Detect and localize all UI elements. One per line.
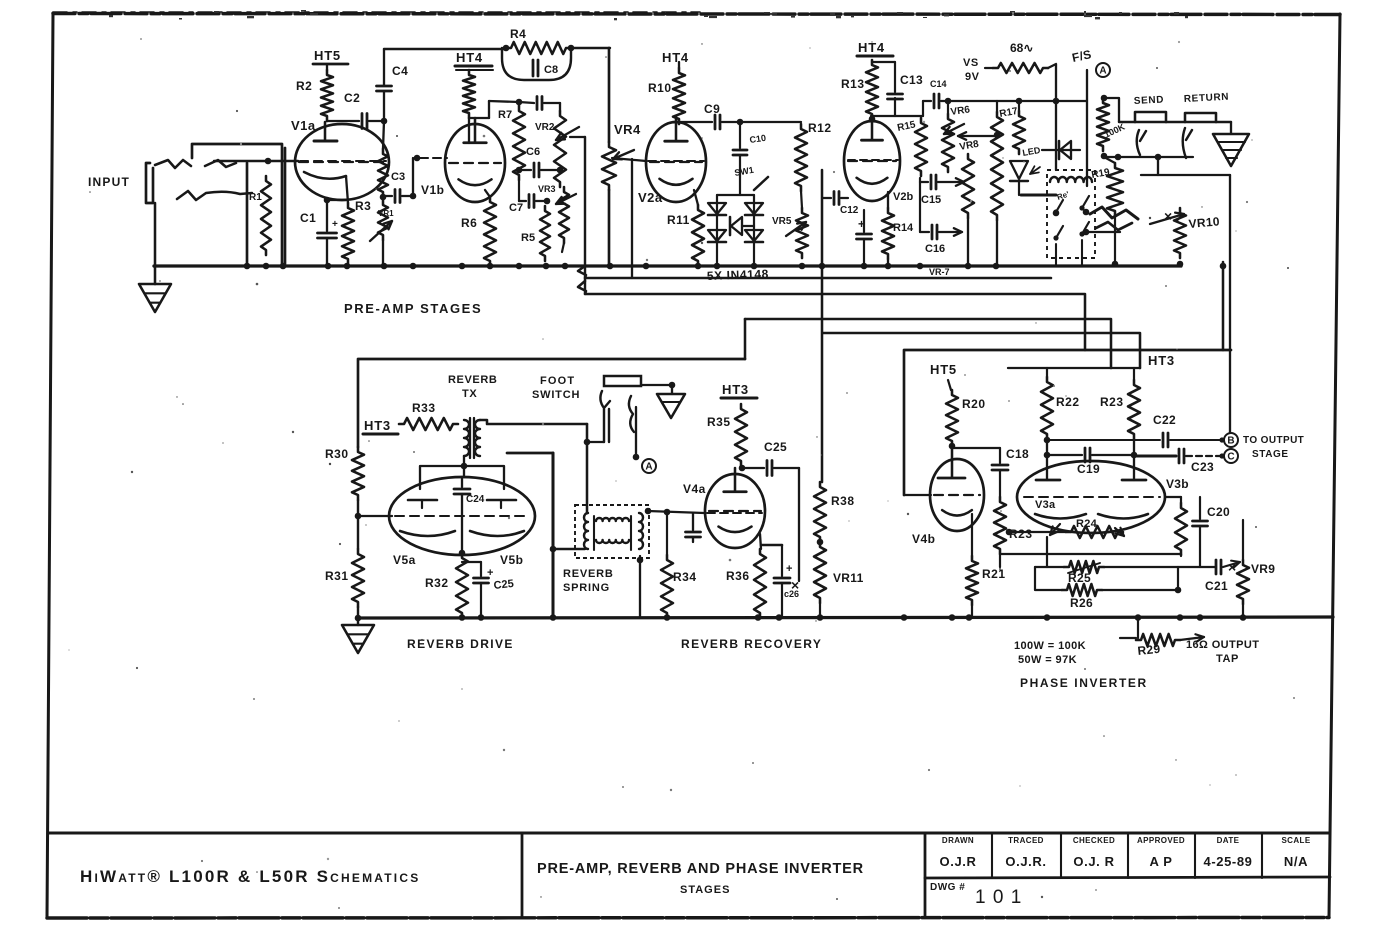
capacitor C16 [919, 182, 921, 232]
capacitor C2 [327, 120, 359, 122]
svg-text:HT3: HT3 [364, 418, 391, 433]
svg-text:O.J.R.: O.J.R. [1005, 854, 1046, 869]
diode near relay [1042, 149, 1080, 151]
capacitor C12 [822, 197, 831, 199]
svg-text:R23: R23 [1009, 527, 1033, 541]
R25 R26 join [1104, 566, 1216, 568]
svg-text:R13: R13 [841, 77, 865, 91]
reverb box outline [358, 359, 745, 447]
resistor R3 [342, 203, 354, 264]
svg-text:R19: R19 [1091, 167, 1111, 181]
capacitor C25 drive [462, 561, 481, 563]
svg-text:R1: R1 [249, 192, 262, 203]
svg-text:O.J. R: O.J. R [1073, 854, 1114, 869]
svg-text:C16: C16 [925, 243, 945, 255]
svg-text:F/S: F/S [1071, 47, 1093, 65]
svg-text:R34: R34 [673, 570, 697, 584]
tube V1b [445, 124, 505, 202]
grid chain below C2 [378, 149, 388, 197]
wire plate V1b to R7 top [489, 101, 519, 102]
svg-text:V4a: V4a [683, 482, 706, 496]
svg-text:R30: R30 [325, 447, 349, 461]
svg-text:VR3: VR3 [538, 184, 556, 194]
svg-text:VR11: VR11 [833, 571, 864, 585]
wire jack sleeve to ground [154, 203, 157, 284]
V3 cathodes [1035, 514, 1086, 519]
title block column lines [991, 833, 993, 878]
svg-text:CHECKED: CHECKED [1073, 836, 1115, 845]
output wire C with C23 [1131, 452, 1138, 459]
reverb bottom bus [358, 617, 1333, 618]
spring right coil to bus [639, 556, 641, 617]
svg-text:R4: R4 [510, 27, 526, 41]
page border right [1329, 14, 1340, 917]
resistor R20 [946, 390, 958, 446]
resistor R4 [506, 42, 571, 54]
resistor R32 [459, 550, 466, 557]
grid return wire [1000, 554, 1181, 556]
tube V5a V5b double triode [389, 477, 535, 555]
svg-text:SEND: SEND [1134, 94, 1165, 107]
svg-text:+: + [332, 219, 338, 230]
V5 cathodes [400, 531, 455, 536]
V5 grids [408, 499, 437, 502]
wire spring to V4a grid [645, 508, 652, 515]
svg-text:SWITCH: SWITCH [532, 389, 580, 401]
title block table left edge [924, 833, 927, 917]
resistor R1 [261, 176, 271, 255]
svg-text:B: B [1227, 436, 1234, 447]
wire jack to V1a grid [214, 160, 298, 162]
svg-text:c26: c26 [784, 589, 799, 599]
grid cap V4a [648, 511, 704, 513]
resistor R27 right of tube [1180, 497, 1182, 503]
capacitor C20 [1199, 497, 1201, 519]
svg-text:R12: R12 [808, 121, 832, 135]
resistor R15 [915, 118, 927, 176]
V3 cathode junction wires [1009, 531, 1066, 533]
pot VR10 [1174, 208, 1186, 258]
resistor R26 [1035, 567, 1062, 590]
foot switch contacts [600, 391, 610, 408]
svg-text:5X IN4148: 5X IN4148 [707, 267, 770, 283]
resistor R35 [735, 404, 747, 466]
V2a cathode to R11 [694, 190, 698, 205]
svg-text:SCALE: SCALE [1281, 836, 1310, 845]
resistor R5 HT4 feed [463, 70, 475, 118]
capacitor C10 [739, 122, 741, 148]
svg-text:VR10: VR10 [1188, 214, 1220, 231]
pot VR3 zigzag [559, 187, 569, 243]
svg-text:FOOT: FOOT [540, 375, 575, 387]
capacitor C1 [326, 200, 328, 231]
svg-text:9V: 9V [965, 71, 980, 83]
capacitor C19 [1044, 452, 1051, 459]
svg-text:C10: C10 [749, 133, 767, 145]
svg-text:A P: A P [1150, 854, 1173, 869]
svg-text:C3: C3 [391, 171, 405, 183]
svg-text:O.J.R: O.J.R [940, 854, 977, 869]
svg-text:HIWATT® L100R & L50R SCHEMA: HIWATT® L100R & L50R SCHEMATICS [80, 867, 420, 886]
phase box outline [904, 350, 1231, 495]
svg-text:A: A [1099, 66, 1106, 77]
svg-text:REVERB RECOVERY: REVERB RECOVERY [681, 637, 822, 651]
svg-text:Reʹ: Reʹ [1056, 190, 1070, 202]
vertical right outputs [1229, 175, 1231, 433]
resistor R5b lower [540, 206, 550, 261]
resistor R36 [754, 549, 766, 618]
svg-text:C9: C9 [704, 102, 720, 116]
svg-text:TX: TX [462, 388, 477, 400]
svg-text:R10: R10 [648, 81, 672, 95]
svg-text:C18: C18 [1006, 447, 1029, 461]
V1b plate lead [468, 118, 470, 143]
svg-text:C14: C14 [930, 79, 947, 89]
svg-text:100W = 100K: 100W = 100K [1014, 640, 1086, 652]
svg-text:VR9: VR9 [1251, 562, 1275, 576]
svg-text:C12: C12 [840, 205, 859, 216]
tube V3a V3b [1017, 461, 1165, 533]
capacitor C18 [952, 447, 1000, 449]
ground input [139, 284, 171, 312]
svg-text:V2a: V2a [638, 190, 663, 205]
capacitor C8 box [502, 48, 571, 80]
svg-text:VR8: VR8 [959, 139, 980, 153]
wire tube right to R27 [1165, 496, 1181, 498]
svg-text:R21: R21 [982, 567, 1006, 581]
svg-text:REVERB: REVERB [448, 374, 497, 386]
contact bus drop wire [1157, 157, 1159, 175]
resistor R12 [795, 124, 807, 191]
svg-text:N/A: N/A [1284, 854, 1308, 869]
svg-text:R38: R38 [831, 494, 855, 508]
svg-text:PRE-AMP STAGES: PRE-AMP STAGES [344, 301, 482, 316]
svg-text:R35: R35 [707, 415, 731, 429]
capacitor C4 [383, 49, 385, 85]
svg-text:SPRING: SPRING [563, 582, 610, 594]
svg-text:C8: C8 [544, 64, 558, 76]
send jack bump [1135, 112, 1166, 122]
svg-text:LED: LED [1022, 145, 1042, 158]
reverb spring dashed box [575, 505, 649, 558]
svg-text:C2: C2 [344, 91, 360, 105]
svg-text:INPUT: INPUT [88, 175, 130, 189]
resistor R2 [326, 64, 328, 70]
svg-text:HT4: HT4 [662, 50, 689, 65]
resistor R38 [814, 482, 826, 542]
svg-text:R31: R31 [325, 569, 349, 583]
wire VR2 wiper to bus2 vertical [570, 136, 585, 138]
svg-text:C25: C25 [764, 440, 787, 454]
bus line 3 with hook [578, 281, 1085, 350]
resistor R33 [399, 418, 458, 430]
capacitor C25 recovery [742, 467, 764, 469]
resistor R14 [887, 192, 889, 208]
svg-text:VR-7: VR-7 [929, 267, 950, 277]
svg-text:×: × [1164, 208, 1172, 224]
pot VR1 [378, 200, 388, 240]
tube V4b [930, 459, 984, 531]
svg-text:16Ω OUTPUT: 16Ω OUTPUT [1186, 639, 1259, 651]
svg-text:V2b: V2b [893, 191, 913, 203]
svg-text:DATE: DATE [1217, 836, 1240, 845]
resistor R22 [1046, 368, 1048, 377]
svg-text:HT3: HT3 [1148, 353, 1175, 368]
svg-text:A: A [645, 462, 652, 473]
svg-text:VR6: VR6 [950, 104, 971, 118]
svg-text:R32: R32 [425, 576, 449, 590]
svg-text:C25: C25 [493, 578, 514, 592]
svg-text:R33: R33 [412, 401, 436, 415]
svg-text:HT3: HT3 [722, 382, 749, 397]
resistor R23 left [994, 497, 1006, 554]
svg-text:R25: R25 [1068, 571, 1091, 585]
resistor R31 [352, 549, 364, 607]
resistor R25 [1035, 566, 1064, 568]
svg-text:C15: C15 [921, 194, 941, 206]
capacitor C9 [678, 122, 680, 124]
svg-text:C21: C21 [1205, 579, 1228, 593]
tall resistor R16 [991, 112, 1003, 220]
svg-text:VR2: VR2 [535, 122, 555, 133]
resistor R24 horizontal [1066, 526, 1123, 538]
relay dashed box [1047, 170, 1095, 258]
svg-text:R20: R20 [962, 397, 986, 411]
wire transformer secondary to foot switch [480, 420, 587, 424]
pot VR2 [554, 111, 566, 187]
V3 plates [1046, 439, 1048, 480]
svg-text:V4b: V4b [912, 532, 936, 546]
svg-text:HT5: HT5 [314, 48, 341, 63]
output wire B with C22 [1044, 437, 1051, 444]
wire C25 to VR11 wiper [798, 468, 800, 581]
svg-text:R26: R26 [1070, 596, 1093, 610]
pot VR8 [962, 154, 974, 218]
page border left [47, 13, 53, 918]
svg-text:TO OUTPUT: TO OUTPUT [1243, 435, 1304, 446]
cap on R7 top to VR2 [519, 102, 534, 103]
svg-text:VR5: VR5 [772, 216, 792, 227]
svg-text:V5b: V5b [500, 553, 524, 567]
transformer primary to tube plates [463, 456, 465, 477]
pot VR11 [817, 539, 824, 546]
relay contacts [1053, 209, 1058, 214]
svg-text:APPROVED: APPROVED [1137, 836, 1185, 845]
preamp ground bus [154, 264, 1181, 267]
svg-text:R24: R24 [1076, 518, 1098, 530]
svg-text:PRE-AMP, REVERB AND PHASE INVE: PRE-AMP, REVERB AND PHASE INVERTER [537, 861, 864, 877]
svg-text:V1a: V1a [291, 118, 316, 133]
circled A reverb [642, 459, 656, 473]
svg-text:C19: C19 [1077, 462, 1100, 476]
V4a cathode network [760, 534, 761, 549]
svg-text:R11: R11 [667, 213, 690, 227]
svg-text:VS: VS [963, 57, 979, 69]
SW1 switch arm [754, 177, 768, 190]
return jack bump [1185, 113, 1216, 122]
pot VR5 [801, 191, 802, 208]
relay bottom stubs [1055, 244, 1057, 266]
svg-text:C4: C4 [392, 64, 408, 78]
svg-text:REVERB DRIVE: REVERB DRIVE [407, 637, 514, 651]
svg-text:4-25-89: 4-25-89 [1203, 854, 1252, 869]
tube V2a [646, 122, 706, 202]
svg-text:REVERB: REVERB [563, 568, 614, 580]
svg-text:C6: C6 [526, 146, 540, 158]
svg-text:C7: C7 [509, 202, 523, 214]
svg-text:R29: R29 [1137, 642, 1161, 658]
tube V2b [844, 121, 900, 201]
svg-text:R3: R3 [355, 199, 371, 213]
input jack switch contact [177, 191, 252, 200]
V1b cathode to R6 [485, 190, 490, 197]
svg-text:VR1: VR1 [378, 209, 394, 218]
V2a grid to VR4 wiper vertical [631, 159, 633, 278]
scan noise speckles [871, 41, 872, 42]
top rail to R4 [384, 48, 506, 50]
reverb transformer [464, 420, 469, 456]
HT3 rail phase [1008, 367, 1140, 369]
svg-text:V3a: V3a [1035, 499, 1056, 511]
input box wires [192, 144, 282, 266]
svg-text:STAGES: STAGES [680, 884, 730, 896]
V1b grid wire [420, 157, 447, 159]
long vertical from C12 down [821, 170, 824, 482]
svg-text:50W = 97K: 50W = 97K [1018, 654, 1077, 666]
resistor 100K [1097, 98, 1109, 151]
resistor R23 right [1133, 368, 1135, 380]
capacitor C15 [919, 178, 921, 182]
capacitor C13 [872, 61, 895, 63]
svg-text:V3b: V3b [1166, 477, 1189, 491]
grid feed wire [357, 500, 359, 549]
svg-text:R5: R5 [521, 232, 535, 244]
svg-text:C23: C23 [1191, 460, 1214, 474]
pot VR6 [942, 114, 954, 172]
svg-text:VR4: VR4 [614, 122, 641, 137]
svg-text:R2: R2 [296, 79, 312, 93]
spring coils [584, 513, 588, 549]
title block row divider [925, 877, 1330, 878]
bus line 5 [823, 333, 1140, 368]
relay contact wires right [1086, 231, 1120, 233]
page border top (rough scanned edge) [53, 14, 1340, 15]
send return contact bus [1104, 156, 1193, 158]
tube V4a [705, 474, 765, 548]
svg-text:HT5: HT5 [930, 362, 957, 377]
svg-text:DWG #: DWG # [930, 882, 965, 893]
svg-text:×: × [1228, 559, 1236, 575]
V2a grid dash [648, 160, 704, 162]
svg-text:C1: C1 [300, 211, 316, 225]
svg-text:+: + [786, 563, 792, 575]
svg-text:V1b: V1b [421, 183, 445, 197]
resistor R11 [692, 205, 704, 266]
jack contacts [1137, 130, 1146, 155]
svg-text:C24: C24 [466, 494, 485, 505]
svg-text:DRAWN: DRAWN [942, 836, 974, 845]
VR8 wiper arrow [958, 135, 996, 137]
svg-text:PHASE INVERTER: PHASE INVERTER [1020, 676, 1148, 690]
wire R19 to bus [1114, 216, 1116, 264]
svg-text:R22: R22 [1056, 395, 1080, 409]
ground triangle foot switch [657, 394, 685, 418]
svg-text:C20: C20 [1207, 505, 1230, 519]
relay coil [1050, 177, 1092, 182]
svg-text:RETURN: RETURN [1184, 92, 1230, 105]
resistor R17 [1013, 111, 1025, 154]
svg-text:R23: R23 [1100, 395, 1124, 409]
pot VR9 [1237, 560, 1249, 604]
capacitor C24 inside tube [461, 477, 463, 487]
input jack [146, 163, 153, 203]
send return jack bus [1119, 121, 1231, 123]
pot VR4 tall [608, 48, 611, 142]
foot switch jack [604, 376, 641, 386]
svg-text:C13: C13 [900, 73, 923, 87]
wire V5 plates to spring drive [507, 452, 553, 455]
svg-text:V5a: V5a [393, 553, 416, 567]
resistor R30 [352, 447, 364, 500]
svg-text:HT4: HT4 [456, 50, 483, 65]
resistor R10 [673, 68, 685, 124]
svg-text:R36: R36 [726, 569, 750, 583]
resistor R29 output tap [1137, 618, 1139, 638]
capacitor C21 [1215, 560, 1218, 574]
V1a grid dash [300, 160, 386, 162]
svg-text:R6: R6 [461, 216, 477, 230]
svg-text:68∿: 68∿ [1010, 41, 1033, 55]
svg-text:R17: R17 [999, 106, 1019, 120]
ground triangle hatched send/return [1213, 134, 1249, 166]
wire VR10 bottom bus [1177, 261, 1184, 268]
resistor R21 [971, 514, 973, 556]
resistor R7 [513, 106, 525, 180]
bus line 4 to reverb box [745, 319, 1111, 368]
svg-text:C: C [1227, 452, 1234, 463]
svg-text:TRACED: TRACED [1008, 836, 1044, 845]
jack ground step to triangle [1230, 122, 1232, 134]
svg-text:SW1: SW1 [734, 165, 755, 178]
bus line 2 with hook [578, 266, 1051, 278]
svg-text:R14: R14 [893, 222, 914, 234]
svg-text:TAP: TAP [1216, 653, 1239, 665]
vertical to phase box right [1222, 262, 1225, 350]
svg-text:STAGE: STAGE [1252, 449, 1289, 460]
relay to VR10 jagged wires [1090, 207, 1138, 219]
svg-text:1 0 1: 1 0 1 [975, 887, 1022, 908]
tube V1a [295, 124, 389, 200]
svg-text:R7: R7 [498, 109, 512, 121]
100K top step to jack bus [1104, 98, 1119, 122]
svg-text:C22: C22 [1153, 413, 1176, 427]
page border bottom [47, 916, 1329, 920]
resistor R34 [666, 512, 668, 555]
ground reverb [342, 625, 374, 653]
resistor R13 [866, 60, 878, 119]
title block divider 1 [521, 833, 524, 917]
resistor R6 [484, 197, 496, 266]
title block top rule [48, 831, 1330, 834]
